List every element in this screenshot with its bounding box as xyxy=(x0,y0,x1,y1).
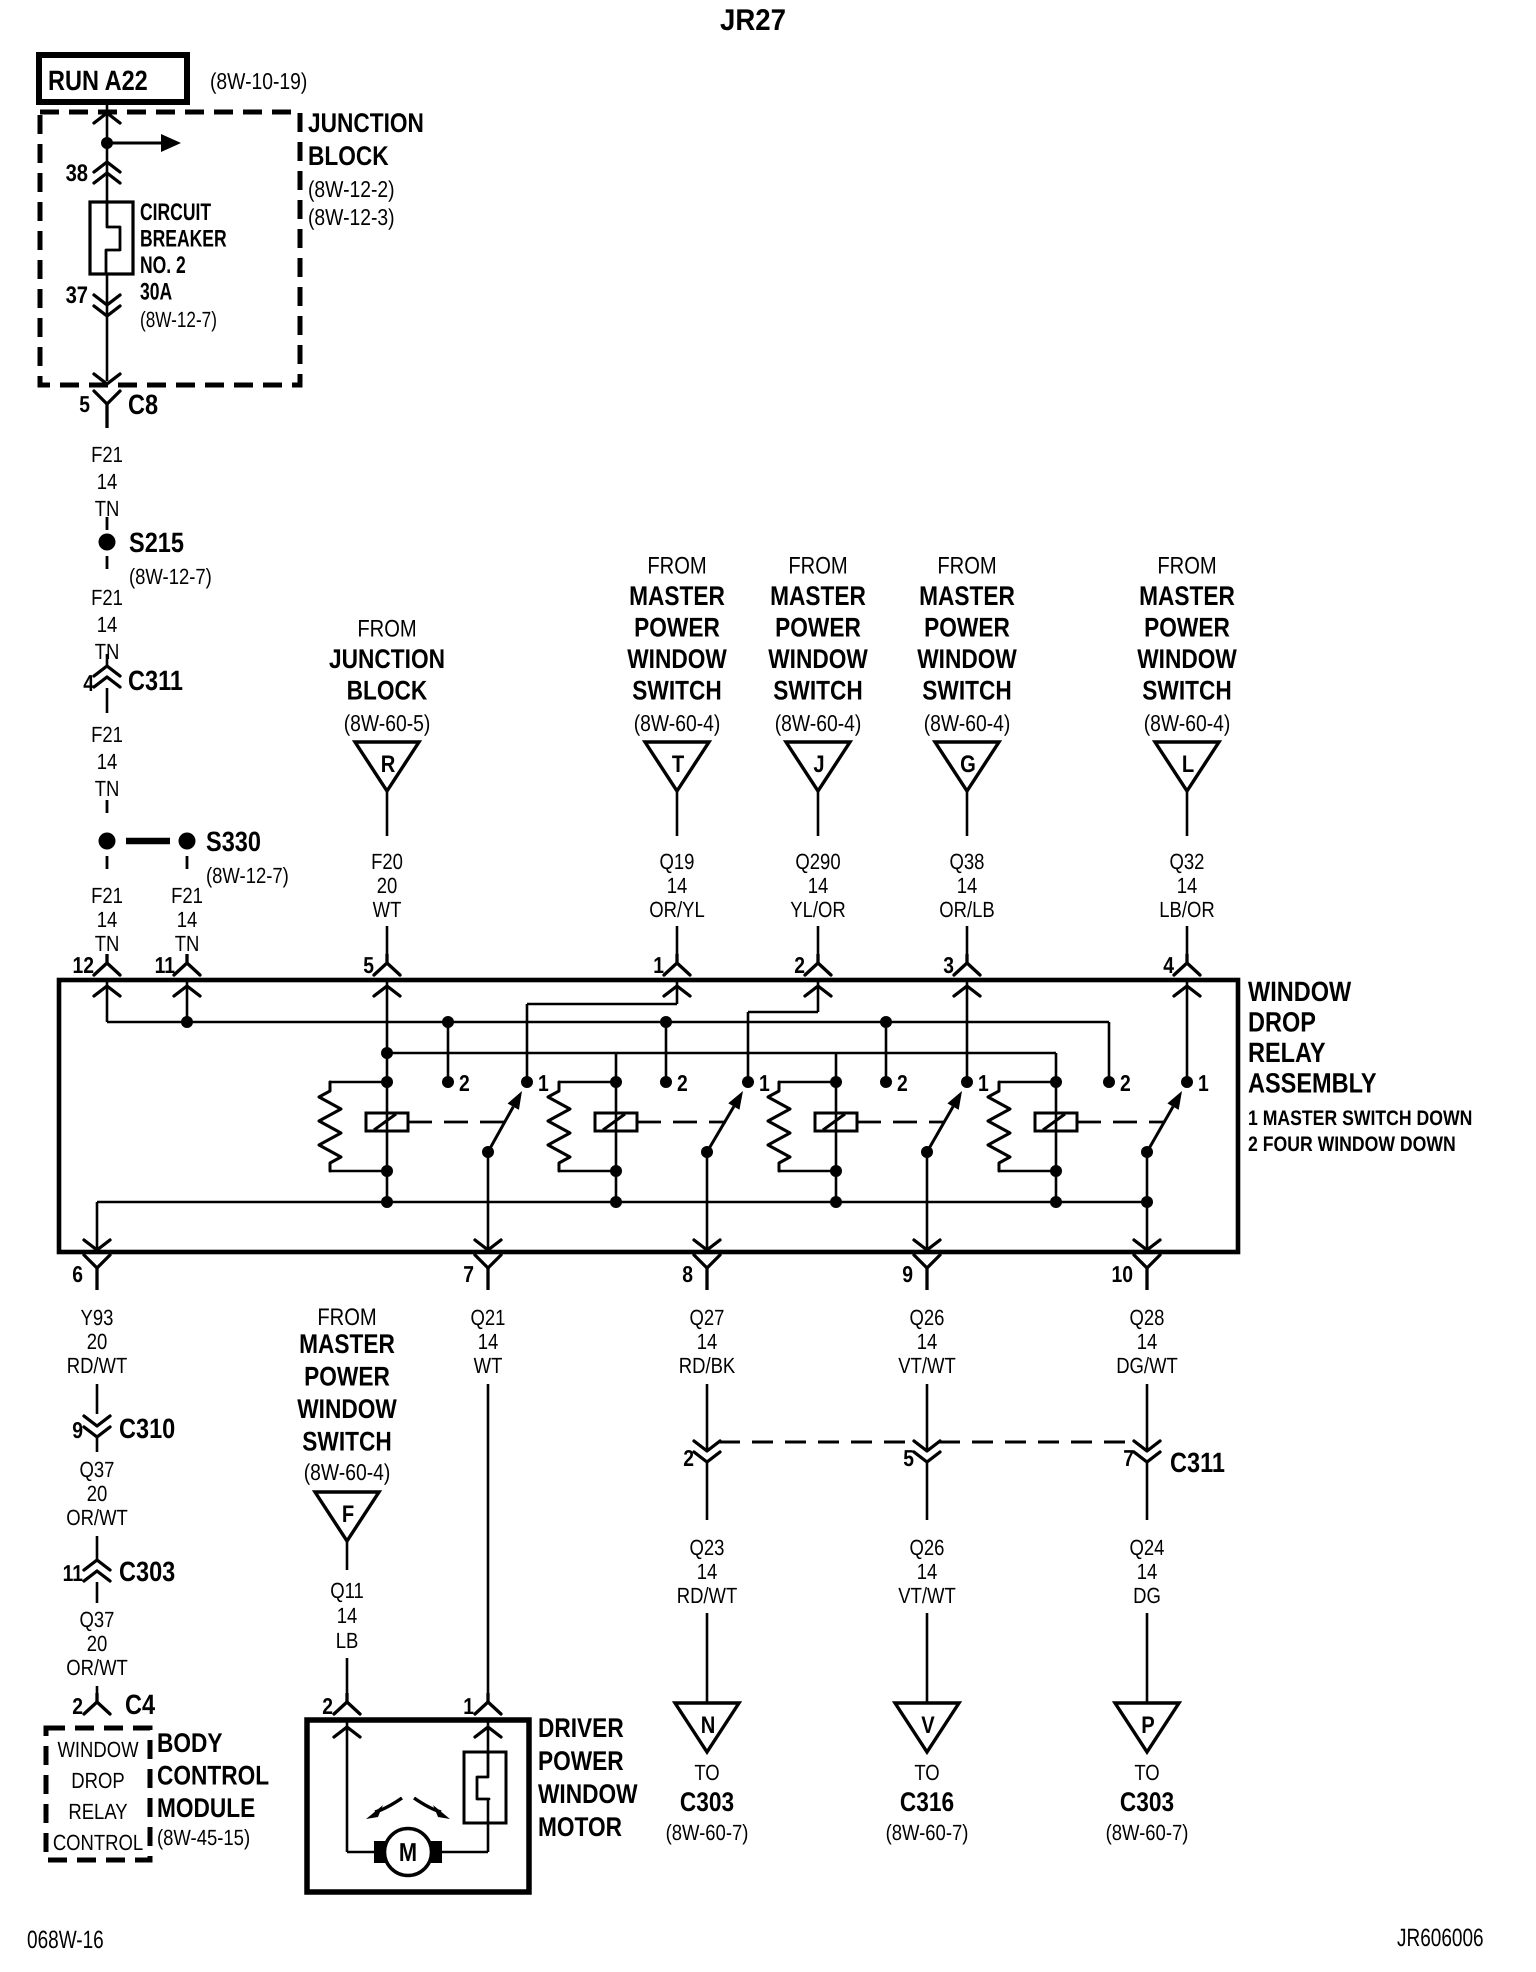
contact 2 (relay 1) xyxy=(442,1070,470,1096)
svg-text:2: 2 xyxy=(72,1693,83,1719)
switch blade (relay 2) xyxy=(701,1091,743,1158)
svg-text:14: 14 xyxy=(957,873,978,898)
svg-text:Y93: Y93 xyxy=(81,1305,114,1330)
contact 1 (relay 1) xyxy=(521,1070,549,1096)
svg-text:(8W-12-7): (8W-12-7) xyxy=(140,307,217,332)
svg-text:12: 12 xyxy=(73,952,94,978)
svg-text:M: M xyxy=(399,1837,417,1867)
svg-text:S330: S330 xyxy=(206,826,261,857)
switch blade (relay 4) xyxy=(1141,1091,1182,1158)
svg-text:ASSEMBLY: ASSEMBLY xyxy=(1248,1068,1377,1099)
wire Q11 14 LB (F to motor pin 2) xyxy=(330,1578,364,1702)
svg-text:WINDOW: WINDOW xyxy=(627,644,727,674)
svg-text:(8W-60-7): (8W-60-7) xyxy=(886,1820,969,1845)
relay K1 coil xyxy=(366,1076,408,1208)
node A22 branch (to other JB circuits) xyxy=(101,134,181,152)
svg-text:14: 14 xyxy=(1177,873,1198,898)
pin 37 (junction block) xyxy=(66,274,120,381)
svg-text:2: 2 xyxy=(677,1070,688,1096)
svg-text:(8W-60-5): (8W-60-5) xyxy=(344,710,431,736)
svg-text:1: 1 xyxy=(538,1070,549,1096)
svg-text:JUNCTION: JUNCTION xyxy=(329,644,445,674)
svg-text:POWER: POWER xyxy=(538,1746,624,1776)
svg-text:WINDOW: WINDOW xyxy=(917,644,1017,674)
wire pin 4 to relay 4 contact 1 xyxy=(1186,982,1189,1082)
motor M (driver window) xyxy=(374,1829,442,1876)
resistor (relay 2 coil suppression) xyxy=(548,1082,616,1171)
svg-text:WINDOW: WINDOW xyxy=(297,1394,397,1424)
svg-text:TN: TN xyxy=(95,776,120,801)
svg-text:R: R xyxy=(381,751,396,778)
svg-text:RUN A22: RUN A22 xyxy=(48,65,148,96)
off-page connector F (from master power window switch) xyxy=(297,1304,397,1570)
svg-text:Q28: Q28 xyxy=(1130,1305,1165,1330)
svg-text:14: 14 xyxy=(1137,1329,1158,1354)
svg-text:JR606006: JR606006 xyxy=(1397,1924,1484,1952)
svg-text:FROM: FROM xyxy=(937,553,996,580)
motor connector pin 1 xyxy=(463,1693,501,1719)
svg-text:(8W-60-4): (8W-60-4) xyxy=(775,710,862,736)
pin 5 entry arrow (relay assembly) xyxy=(374,986,400,996)
wire pin 1 to relay 1 contact 1 xyxy=(527,982,677,1082)
window drop relay assembly (enclosure) xyxy=(59,976,1472,1252)
svg-text:S215: S215 xyxy=(129,527,184,558)
svg-text:MASTER: MASTER xyxy=(299,1329,395,1359)
svg-text:BREAKER: BREAKER xyxy=(140,226,227,253)
svg-text:SWITCH: SWITCH xyxy=(922,676,1011,706)
circuit breaker (motor internal) xyxy=(464,1752,506,1823)
relay K1 linkage (dashed) xyxy=(408,1121,505,1124)
svg-text:14: 14 xyxy=(97,612,118,637)
wire relay 1 common to pin 7 xyxy=(475,1152,501,1252)
contact 1 (relay 2) xyxy=(742,1070,770,1096)
wire Q21 14 WT (pin 7 to motor pin 1) xyxy=(471,1305,506,1702)
svg-text:1: 1 xyxy=(653,952,664,978)
svg-text:2: 2 xyxy=(322,1693,333,1719)
svg-text:SWITCH: SWITCH xyxy=(632,676,721,706)
svg-text:C311: C311 xyxy=(1170,1447,1225,1478)
svg-text:VT/WT: VT/WT xyxy=(898,1353,955,1378)
junction block (dashed boundary) xyxy=(40,108,424,385)
svg-text:(8W-10-19): (8W-10-19) xyxy=(210,68,307,94)
svg-text:(8W-12-2): (8W-12-2) xyxy=(308,176,395,202)
svg-text:POWER: POWER xyxy=(634,613,720,643)
svg-text:CIRCUIT: CIRCUIT xyxy=(140,199,211,226)
svg-text:2: 2 xyxy=(683,1445,694,1471)
svg-text:CONTROL: CONTROL xyxy=(157,1761,269,1791)
svg-text:DROP: DROP xyxy=(1248,1007,1316,1038)
svg-text:MASTER: MASTER xyxy=(629,581,725,611)
svg-text:TN: TN xyxy=(175,931,200,956)
sheet number 068W-16 xyxy=(27,1926,104,1954)
wire pin 6 exit arrow xyxy=(84,1240,110,1250)
svg-text:Q19: Q19 xyxy=(660,849,695,874)
connector pin 8 (relay assembly bottom) xyxy=(682,1255,720,1290)
svg-text:LB: LB xyxy=(336,1628,359,1653)
svg-text:SWITCH: SWITCH xyxy=(1142,676,1231,706)
wire A22 feed into junction block xyxy=(94,105,120,202)
relay K2 linkage (dashed) xyxy=(637,1121,726,1124)
svg-text:5: 5 xyxy=(903,1445,914,1471)
svg-text:FROM: FROM xyxy=(647,553,706,580)
svg-text:V: V xyxy=(921,1712,934,1739)
driver power window motor (enclosure) xyxy=(307,1713,638,1892)
svg-text:C8: C8 xyxy=(128,389,158,420)
wire F21 14 TN (C311 to S330) xyxy=(91,722,123,813)
wire relay 2 common to pin 8 xyxy=(694,1152,720,1252)
resistor (relay 4 coil suppression) xyxy=(988,1082,1056,1171)
bus pin 5 to relay coil tops xyxy=(381,1047,1056,1059)
splice S330 xyxy=(99,826,289,888)
motor connector pin 2 xyxy=(322,1693,360,1719)
motor rotation arrows xyxy=(366,1798,450,1819)
pin 2 entry arrow (relay assembly) xyxy=(805,986,831,996)
svg-text:POWER: POWER xyxy=(304,1362,390,1392)
wire contact 2 stub (relay 2) xyxy=(660,1016,672,1082)
svg-text:F21: F21 xyxy=(91,585,123,610)
off-page connector L (from master power window switch) xyxy=(1137,553,1237,979)
svg-text:38: 38 xyxy=(66,160,88,187)
motor pin 1 entry arrow xyxy=(475,1727,501,1737)
svg-text:Q37: Q37 xyxy=(80,1457,115,1482)
wire relay 3 coil column xyxy=(835,1053,838,1202)
off-page connector J (from master power window switch) xyxy=(768,553,868,979)
svg-text:MASTER: MASTER xyxy=(919,581,1015,611)
wire contact 2 stub (relay 1) xyxy=(442,1016,454,1082)
bus from pins 12/11 to relay contacts 2 xyxy=(107,1022,1109,1082)
svg-text:Q23: Q23 xyxy=(690,1535,725,1560)
svg-text:(8W-12-3): (8W-12-3) xyxy=(308,204,395,230)
node RUN A22 (fused ignition feed) xyxy=(39,55,307,102)
svg-text:2: 2 xyxy=(459,1070,470,1096)
svg-text:2: 2 xyxy=(1120,1070,1131,1096)
svg-text:F21: F21 xyxy=(91,722,123,747)
svg-text:CONTROL: CONTROL xyxy=(53,1830,143,1855)
wire motor pin 1 through breaker xyxy=(440,1722,489,1852)
svg-text:Q11: Q11 xyxy=(330,1578,364,1603)
svg-text:RELAY: RELAY xyxy=(1248,1037,1326,1068)
connector C303 pin 11 xyxy=(63,1556,176,1603)
svg-text:14: 14 xyxy=(97,469,118,494)
svg-text:POWER: POWER xyxy=(775,613,861,643)
wire Q37 20 OR/WT (C310 to C303) xyxy=(66,1457,128,1560)
connector C8 pin 5 xyxy=(79,374,158,428)
svg-text:14: 14 xyxy=(697,1329,718,1354)
svg-text:POWER: POWER xyxy=(1144,613,1230,643)
connector pins 12 and 11 (relay assembly top) xyxy=(73,952,200,978)
svg-text:(8W-60-4): (8W-60-4) xyxy=(304,1459,391,1485)
pin 12 entry arrow (relay assembly) xyxy=(94,986,120,996)
svg-text:Q27: Q27 xyxy=(690,1305,725,1330)
svg-text:FROM: FROM xyxy=(317,1304,376,1331)
connector pin 9 (relay assembly bottom) xyxy=(902,1255,940,1290)
title JR27 xyxy=(720,4,786,37)
svg-text:14: 14 xyxy=(177,907,198,932)
svg-text:Q26: Q26 xyxy=(910,1305,945,1330)
svg-text:1: 1 xyxy=(1198,1070,1209,1096)
contact 2 (relay 2) xyxy=(660,1070,688,1096)
contact 2 (relay 3) xyxy=(880,1070,908,1096)
svg-text:(8W-45-15): (8W-45-15) xyxy=(157,1825,250,1850)
connector C311 pin 4 (upper) xyxy=(83,654,183,713)
svg-text:C303: C303 xyxy=(680,1787,734,1817)
wire relay 4 coil column xyxy=(1055,1053,1058,1202)
svg-text:C310: C310 xyxy=(119,1413,175,1444)
svg-text:Q32: Q32 xyxy=(1170,849,1205,874)
svg-text:L: L xyxy=(1182,751,1194,778)
pin 11 entry arrow (relay assembly) xyxy=(174,986,200,996)
svg-text:WINDOW: WINDOW xyxy=(538,1779,638,1809)
svg-text:1: 1 xyxy=(759,1070,770,1096)
resistor (relay 1 coil suppression) xyxy=(319,1082,387,1171)
resistor (relay 3 coil suppression) xyxy=(768,1082,836,1171)
svg-text:Q24: Q24 xyxy=(1130,1535,1165,1560)
svg-text:OR/LB: OR/LB xyxy=(939,897,994,922)
wire pin 11 to bus (F21 feed) xyxy=(181,982,193,1028)
svg-text:1 MASTER SWITCH DOWN: 1 MASTER SWITCH DOWN xyxy=(1248,1107,1472,1130)
wire relay 4 common to pin 10 xyxy=(1134,1152,1160,1252)
svg-text:WINDOW: WINDOW xyxy=(57,1737,138,1762)
svg-text:F21: F21 xyxy=(171,883,203,908)
pin 38 (junction block) xyxy=(66,160,120,187)
svg-text:FROM: FROM xyxy=(788,553,847,580)
svg-text:TO: TO xyxy=(694,1760,719,1785)
svg-text:11: 11 xyxy=(63,1560,84,1586)
wire contact 2 stub (relay 3) xyxy=(880,1016,892,1082)
svg-text:37: 37 xyxy=(66,282,88,309)
wire relay 3 common to pin 9 xyxy=(914,1152,940,1252)
svg-text:14: 14 xyxy=(697,1559,718,1584)
svg-text:14: 14 xyxy=(97,749,118,774)
off-page connector R (from junction block) xyxy=(329,616,445,979)
wire pin 12 to bus (F21 feed) xyxy=(106,982,109,1022)
svg-text:9: 9 xyxy=(902,1261,913,1287)
svg-text:14: 14 xyxy=(917,1329,938,1354)
pin 1 entry arrow (relay assembly) xyxy=(664,986,690,996)
svg-text:Q290: Q290 xyxy=(795,849,840,874)
contact 2 (relay 4) xyxy=(1103,1070,1131,1096)
svg-text:068W-16: 068W-16 xyxy=(27,1926,104,1954)
wire pin 3 to relay 3 contact 1 xyxy=(966,982,969,1082)
svg-text:20: 20 xyxy=(87,1481,108,1506)
svg-text:RD/WT: RD/WT xyxy=(67,1353,128,1378)
wire Y93 20 RD/WT (pin 6 to C310) xyxy=(67,1305,128,1414)
svg-text:RD/WT: RD/WT xyxy=(677,1583,738,1608)
connector C311 gang line (dashed) xyxy=(719,1442,1225,1478)
connector pin 6 (relay assembly bottom) xyxy=(72,1255,110,1290)
svg-text:WT: WT xyxy=(373,897,402,922)
off-page connector G (from master power window switch) xyxy=(917,553,1017,979)
svg-text:14: 14 xyxy=(337,1603,358,1628)
svg-text:G: G xyxy=(960,751,976,778)
relay K4 linkage (dashed) xyxy=(1077,1121,1165,1124)
relay K2 coil xyxy=(595,1076,637,1208)
svg-text:BLOCK: BLOCK xyxy=(308,141,389,171)
contact 1 (relay 4) xyxy=(1181,1070,1209,1096)
relay K4 coil xyxy=(1035,1076,1077,1208)
svg-text:4: 4 xyxy=(1163,952,1174,978)
svg-text:F: F xyxy=(342,1501,354,1528)
wire Q26 14 VT/WT / connector C311 pin 5 / wire Q26 14 VT/WT / off-page V to C316 xyxy=(886,1305,969,1845)
svg-text:11: 11 xyxy=(155,952,176,978)
svg-text:(8W-60-4): (8W-60-4) xyxy=(1144,710,1231,736)
svg-text:F21: F21 xyxy=(91,883,123,908)
svg-text:C303: C303 xyxy=(119,1556,175,1587)
svg-text:T: T xyxy=(672,751,685,778)
wire F21 14 TN (S215 to C311) xyxy=(91,585,123,664)
svg-text:C4: C4 xyxy=(125,1689,155,1720)
contact 1 (relay 3) xyxy=(961,1070,989,1096)
svg-text:RELAY: RELAY xyxy=(68,1799,128,1824)
svg-text:7: 7 xyxy=(463,1261,474,1287)
svg-text:7: 7 xyxy=(1123,1445,1134,1471)
svg-text:RD/BK: RD/BK xyxy=(679,1353,736,1378)
svg-text:4: 4 xyxy=(83,670,94,696)
svg-text:C316: C316 xyxy=(900,1787,954,1817)
svg-text:DG/WT: DG/WT xyxy=(1116,1353,1178,1378)
body control module / window drop relay control xyxy=(46,1728,269,1860)
svg-text:NO. 2: NO. 2 xyxy=(140,252,186,279)
motor pin 2 entry arrow xyxy=(334,1727,360,1737)
svg-text:VT/WT: VT/WT xyxy=(898,1583,955,1608)
svg-text:C311: C311 xyxy=(128,665,183,696)
svg-text:DRIVER: DRIVER xyxy=(538,1713,624,1743)
relay K3 coil xyxy=(815,1076,857,1208)
wire Q37 20 OR/WT (C303 to BCM C4) xyxy=(66,1607,128,1700)
svg-text:Q26: Q26 xyxy=(910,1535,945,1560)
pin 4 entry arrow (relay assembly) xyxy=(1174,986,1200,996)
svg-text:(8W-60-7): (8W-60-7) xyxy=(1106,1820,1189,1845)
svg-text:30A: 30A xyxy=(140,279,172,306)
svg-text:Q37: Q37 xyxy=(80,1607,115,1632)
pin 3 entry arrow (relay assembly) xyxy=(954,986,980,996)
svg-text:8: 8 xyxy=(682,1261,693,1287)
svg-text:F20: F20 xyxy=(371,849,403,874)
svg-text:5: 5 xyxy=(363,952,374,978)
svg-text:WINDOW: WINDOW xyxy=(768,644,868,674)
svg-text:2: 2 xyxy=(897,1070,908,1096)
connector pin 7 (relay assembly bottom) xyxy=(463,1255,501,1290)
svg-text:FROM: FROM xyxy=(1157,553,1216,580)
svg-text:14: 14 xyxy=(917,1559,938,1584)
svg-text:TO: TO xyxy=(914,1760,939,1785)
wire motor pin 2 to brush xyxy=(347,1722,376,1852)
svg-text:JR27: JR27 xyxy=(720,4,786,37)
svg-text:BODY: BODY xyxy=(157,1728,223,1758)
svg-text:DROP: DROP xyxy=(71,1768,124,1793)
svg-text:Q21: Q21 xyxy=(471,1305,506,1330)
svg-text:MOTOR: MOTOR xyxy=(538,1812,622,1842)
svg-text:JUNCTION: JUNCTION xyxy=(308,108,424,138)
connector C4 pin 2 (body control module) xyxy=(72,1689,155,1720)
svg-text:BLOCK: BLOCK xyxy=(347,676,428,706)
connector C310 pin 9 xyxy=(72,1413,175,1452)
drawing number JR606006 xyxy=(1397,1924,1484,1952)
svg-text:9: 9 xyxy=(72,1417,83,1443)
svg-text:WINDOW: WINDOW xyxy=(1248,976,1352,1007)
svg-text:20: 20 xyxy=(87,1329,108,1354)
switch blade (relay 1) xyxy=(482,1091,522,1158)
svg-text:DG: DG xyxy=(1133,1583,1161,1608)
svg-text:TN: TN xyxy=(95,931,120,956)
svg-text:1: 1 xyxy=(463,1693,474,1719)
svg-text:POWER: POWER xyxy=(924,613,1010,643)
wire F21 14 TN (S330 to pin 12) xyxy=(91,883,123,956)
svg-text:5: 5 xyxy=(79,391,90,417)
svg-text:WINDOW: WINDOW xyxy=(1137,644,1237,674)
relay K3 linkage (dashed) xyxy=(857,1121,945,1124)
svg-text:J: J xyxy=(813,751,824,778)
wire Q27 14 RD/BK / connector C311 pin 2 / wire Q23 14 RD/WT / off-page N to C303 xyxy=(666,1305,749,1845)
svg-text:14: 14 xyxy=(808,873,829,898)
wire relay 2 coil column xyxy=(615,1053,618,1202)
svg-text:14: 14 xyxy=(478,1329,499,1354)
svg-text:10: 10 xyxy=(1112,1261,1133,1287)
svg-text:14: 14 xyxy=(1137,1559,1158,1584)
svg-text:TO: TO xyxy=(1134,1760,1159,1785)
svg-text:14: 14 xyxy=(667,873,688,898)
svg-text:20: 20 xyxy=(377,873,398,898)
svg-text:SWITCH: SWITCH xyxy=(773,676,862,706)
svg-text:6: 6 xyxy=(72,1261,83,1287)
wire pin 2 to relay 2 contact 1 xyxy=(748,982,818,1082)
svg-text:LB/OR: LB/OR xyxy=(1159,897,1214,922)
svg-text:P: P xyxy=(1141,1712,1154,1739)
svg-text:C303: C303 xyxy=(1120,1787,1174,1817)
svg-text:SWITCH: SWITCH xyxy=(302,1427,391,1457)
svg-text:N: N xyxy=(701,1712,716,1739)
svg-text:2: 2 xyxy=(794,952,805,978)
circuit breaker NO. 2 30A xyxy=(90,199,227,332)
svg-text:OR/WT: OR/WT xyxy=(66,1655,128,1680)
svg-text:Q38: Q38 xyxy=(950,849,985,874)
svg-text:(8W-60-7): (8W-60-7) xyxy=(666,1820,749,1845)
svg-text:MASTER: MASTER xyxy=(1139,581,1235,611)
svg-text:(8W-60-4): (8W-60-4) xyxy=(634,710,721,736)
svg-text:(8W-12-7): (8W-12-7) xyxy=(206,863,289,888)
wire F21 14 TN (C8 to S215) xyxy=(91,442,123,530)
svg-text:MODULE: MODULE xyxy=(157,1793,255,1823)
svg-text:1: 1 xyxy=(978,1070,989,1096)
svg-text:20: 20 xyxy=(87,1631,108,1656)
wire Q28 14 DG/WT / connector C311 pin 7 / wire Q24 14 DG / off-page P to C303 xyxy=(1106,1305,1189,1845)
svg-text:(8W-12-7): (8W-12-7) xyxy=(129,564,212,589)
wire pin 5 feed (F20 to relay coils) xyxy=(386,982,389,1202)
svg-text:3: 3 xyxy=(943,952,954,978)
svg-text:MASTER: MASTER xyxy=(770,581,866,611)
svg-text:2 FOUR WINDOW DOWN: 2 FOUR WINDOW DOWN xyxy=(1248,1133,1456,1156)
svg-text:OR/WT: OR/WT xyxy=(66,1505,128,1530)
svg-text:FROM: FROM xyxy=(357,616,416,643)
off-page connector T (from master power window switch) xyxy=(627,553,727,979)
svg-text:F21: F21 xyxy=(91,442,123,467)
coil return bus (to pin 6) xyxy=(97,1202,1147,1252)
svg-text:14: 14 xyxy=(97,907,118,932)
svg-text:OR/YL: OR/YL xyxy=(649,897,704,922)
splice S215 xyxy=(99,527,212,589)
wire F21 14 TN (S330 to pin 11) xyxy=(171,883,203,956)
switch blade (relay 3) xyxy=(921,1091,962,1158)
connector pin 10 (relay assembly bottom) xyxy=(1112,1255,1160,1290)
svg-text:YL/OR: YL/OR xyxy=(790,897,845,922)
svg-text:(8W-60-4): (8W-60-4) xyxy=(924,710,1011,736)
svg-text:WT: WT xyxy=(474,1353,503,1378)
